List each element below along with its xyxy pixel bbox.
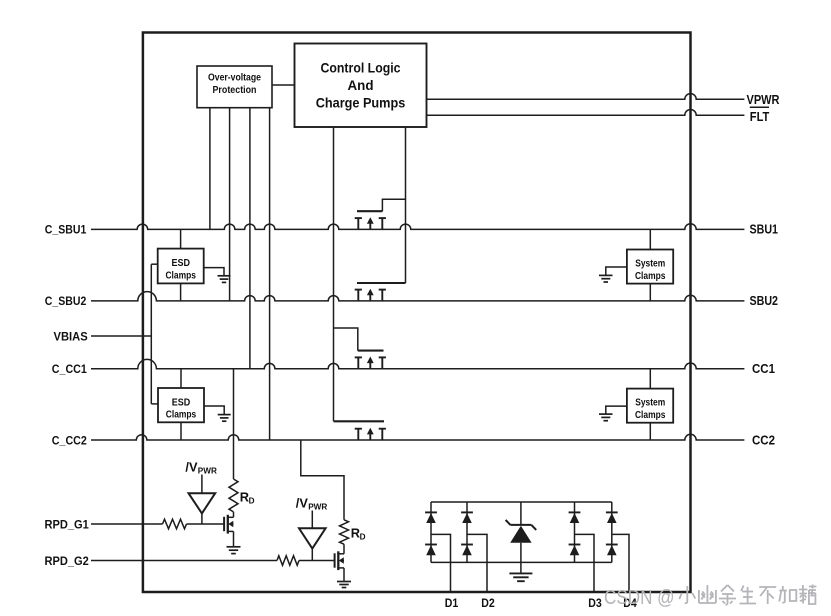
chip boundary box	[143, 33, 691, 593]
wire: OVP pin to C_SBU1	[209, 108, 211, 230]
ground at ESD2	[218, 415, 231, 422]
pass FET Q2 on SBU2	[355, 283, 406, 301]
svg-text:/V: /V	[185, 460, 198, 475]
svg-text:ESD: ESD	[172, 397, 191, 408]
wire: SC1 pin to SBU1	[649, 229, 651, 249]
svg-text:D: D	[360, 533, 366, 542]
wire: ESD1 ground lead	[204, 268, 224, 276]
net RPD_G1 wire	[91, 523, 224, 525]
svg-text:RPD_G2: RPD_G2	[45, 554, 89, 568]
diode D1b (lower)	[425, 545, 437, 556]
resistor RD1	[229, 479, 238, 512]
ground at ESD1	[218, 276, 231, 283]
node SBU1 label	[750, 222, 779, 237]
ESD clamps block U4	[158, 388, 204, 422]
ground at zener DZ	[509, 573, 532, 581]
svg-text:Clamps: Clamps	[635, 271, 666, 282]
node D4 label	[623, 596, 637, 610]
wire: D4 tap to pin	[612, 534, 629, 591]
wire: Q5 source to ground	[233, 531, 235, 546]
svg-text:D2: D2	[481, 596, 495, 610]
ground at Q5	[227, 547, 241, 554]
wire: Q6 source to ground	[343, 568, 345, 582]
net VPWR wire	[427, 94, 745, 100]
wire: RD1 to C_CC1 (hops C_CC2)	[233, 369, 235, 479]
svg-text:VPWR: VPWR	[747, 92, 780, 107]
wire: Q6 drain to RD2	[343, 544, 345, 554]
ground at SC2	[599, 414, 613, 421]
wire: OVP to control logic	[272, 84, 295, 86]
svg-text:CC1: CC1	[752, 361, 775, 376]
node VBIAS label	[54, 329, 88, 343]
svg-text:D: D	[249, 497, 255, 506]
diode D4b (lower)	[606, 545, 618, 556]
svg-text:C_SBU2: C_SBU2	[45, 294, 87, 308]
wire: OVP pin to C_CC1	[249, 108, 251, 369]
svg-text:SBU2: SBU2	[750, 293, 779, 308]
net FLT wire	[427, 109, 745, 115]
over-voltage protection block U1	[197, 66, 272, 108]
wire: RD2 to C_CC2	[301, 440, 344, 520]
node FLT label (active low)	[750, 107, 770, 124]
pass FET Q4 on CC2	[334, 421, 386, 440]
node D3 label	[588, 596, 602, 610]
label RD2	[351, 526, 366, 542]
diode stack D4 vertical wire	[611, 502, 613, 562]
wire: SC2 pin to CC2	[649, 423, 651, 440]
svg-text:Charge Pumps: Charge Pumps	[316, 96, 406, 111]
svg-text:PWR: PWR	[198, 467, 217, 476]
node CC1 label	[752, 361, 775, 376]
control logic and charge pumps block U2	[295, 44, 427, 128]
net C_SBU2 / SBU2 wire	[91, 292, 744, 301]
svg-text:And: And	[348, 78, 374, 93]
wire: SC2 pin to CC1	[649, 369, 651, 389]
net C_CC1 / CC1 wire	[91, 359, 744, 368]
pulldown NMOS Q5	[224, 515, 233, 534]
wire: ESD1 pin to C_SBU2	[180, 283, 182, 301]
svg-text:FLT: FLT	[750, 109, 770, 124]
diode D1a (upper)	[425, 512, 437, 523]
svg-text:Protection: Protection	[213, 85, 257, 96]
system clamps block U5	[627, 250, 673, 284]
pass FET Q1 on SBU1	[355, 199, 406, 229]
net C_SBU1 / SBU1 wire	[91, 224, 744, 230]
diode stack D1 vertical wire	[430, 502, 432, 562]
svg-text:PWR: PWR	[308, 503, 327, 512]
svg-text:C_CC1: C_CC1	[52, 362, 87, 376]
svg-text:Clamps: Clamps	[165, 270, 196, 281]
svg-text:Clamps: Clamps	[635, 410, 666, 421]
svg-text:VBIAS: VBIAS	[54, 329, 88, 343]
resistor R1 (RPD_G1 series)	[163, 519, 187, 529]
node C_CC2 label	[52, 433, 87, 447]
node RPD_G1 label	[45, 517, 89, 531]
svg-text:System: System	[635, 259, 665, 270]
wire: ESD1 pin to C_SBU1	[180, 229, 182, 248]
resistor RD2	[340, 520, 349, 544]
inverter A1 (/VPWR gate driver)	[189, 475, 216, 525]
ground at SC1	[599, 275, 613, 282]
label /VPWR for A2	[296, 496, 328, 512]
system clamps block U6	[627, 389, 673, 423]
ESD clamps block U3	[158, 249, 204, 284]
diode array bottom rail wire	[431, 561, 612, 563]
pass FET Q3 on CC1	[355, 351, 386, 369]
node RPD_G2 label	[45, 554, 89, 568]
node D2 label	[481, 596, 495, 610]
diode D2b (lower)	[461, 545, 473, 556]
wire: SC1 ground lead	[606, 267, 627, 275]
wire: ESD1 to VBIAS rail	[151, 263, 157, 265]
label RD1	[240, 490, 255, 506]
watermark CSDN @xiaoyouyushengbujiatang	[604, 585, 816, 610]
net C_CC2 / CC2 wire	[91, 434, 744, 440]
svg-text:Control Logic: Control Logic	[321, 61, 402, 76]
node CC2 label	[752, 432, 775, 447]
diode stack D3 vertical wire	[574, 502, 576, 562]
svg-text:/V: /V	[296, 496, 309, 511]
wire: gate drive bus A (CC FETs)	[334, 127, 385, 421]
svg-text:CSDN @: CSDN @	[604, 587, 675, 609]
node SBU2 label	[750, 293, 779, 308]
svg-text:ESD: ESD	[171, 258, 190, 269]
wire: OVP pin to C_CC2	[269, 108, 271, 440]
node C_CC1 label	[52, 362, 87, 376]
inverter A2 (/VPWR gate driver)	[299, 511, 326, 561]
svg-text:D3: D3	[588, 596, 602, 610]
pulldown NMOS Q6	[335, 551, 344, 570]
svg-text:Clamps: Clamps	[166, 410, 197, 421]
ground at Q6	[337, 582, 351, 588]
net RPD_G2 wire	[91, 560, 335, 562]
wire: SC2 ground lead	[606, 406, 627, 414]
wire: ESD2 pin to C_CC2	[180, 422, 182, 440]
node C_SBU1 label	[45, 223, 87, 237]
wire: D3 tap to pin	[575, 534, 595, 591]
diode stack D2 vertical wire	[466, 502, 468, 562]
VBIAS rail wire	[150, 264, 152, 404]
diode D2a (upper)	[461, 512, 473, 523]
zener diode DZ	[506, 502, 537, 573]
wire: gate drive bus B (SBU FETs)	[405, 127, 407, 283]
svg-text:System: System	[635, 398, 665, 409]
label /VPWR for A1	[185, 460, 217, 476]
diode D3a (upper)	[569, 512, 581, 523]
diode array top rail wire	[431, 501, 612, 503]
resistor R2 (RPD_G2 series)	[277, 556, 299, 566]
wire: OVP pin to C_SBU2	[229, 108, 231, 301]
diode D4a (upper)	[606, 512, 618, 523]
wire: SC1 pin to SBU2	[649, 284, 651, 301]
wire: ESD2 pin to C_CC1	[180, 369, 182, 388]
diode D3b (lower)	[569, 545, 581, 556]
svg-text:SBU1: SBU1	[750, 222, 779, 237]
net VBIAS wire	[91, 335, 151, 337]
wire: Q5 drain to RD	[233, 512, 235, 517]
node C_SBU2 label	[45, 294, 87, 308]
node VPWR label	[747, 92, 780, 107]
wire: ESD2 to VBIAS rail	[151, 403, 158, 405]
wire: D2 tap to pin	[467, 534, 487, 591]
svg-text:D1: D1	[445, 596, 459, 610]
svg-text:RPD_G1: RPD_G1	[45, 517, 89, 531]
wire: ESD2 ground lead	[204, 406, 224, 415]
wire: D1 tap to pin	[431, 534, 451, 591]
svg-text:C_CC2: C_CC2	[52, 433, 87, 447]
svg-text:Over-voltage: Over-voltage	[208, 73, 261, 84]
node D1 label	[445, 596, 459, 610]
svg-text:CC2: CC2	[752, 432, 775, 447]
svg-text:C_SBU1: C_SBU1	[45, 223, 87, 237]
